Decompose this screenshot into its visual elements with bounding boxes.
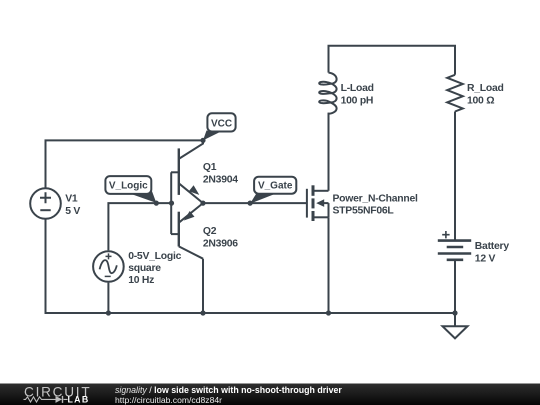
ground xyxy=(443,326,468,338)
svg-text:12 V: 12 V xyxy=(475,254,496,265)
svg-text:Battery: Battery xyxy=(475,241,510,252)
wire inductor top lead, top rail, R_Load top lead xyxy=(329,46,456,75)
svg-text:signality / low side switch wi: signality / low side switch with no-shoo… xyxy=(115,385,342,395)
label Q1 xyxy=(203,162,238,185)
wire ground stem xyxy=(454,313,456,326)
transistor Q1 2N3904 xyxy=(171,140,203,203)
svg-text:Q1: Q1 xyxy=(203,162,217,173)
svg-text:V_Gate: V_Gate xyxy=(258,181,293,192)
label V1 value xyxy=(65,193,80,217)
label Q2 xyxy=(203,226,238,249)
svg-text:R_Load: R_Load xyxy=(467,83,504,94)
junction dot VCC node xyxy=(200,138,205,143)
node flag V_Logic xyxy=(105,176,156,203)
MOSFET body arrowhead xyxy=(316,199,324,207)
svg-text:V_Logic: V_Logic xyxy=(109,181,148,192)
node flag V_Gate xyxy=(250,177,296,204)
footer logo CIRCUIT LAB xyxy=(24,384,92,404)
label R_Load value xyxy=(467,83,504,106)
MOSFET Power_N-Channel STP55NF06L xyxy=(307,185,329,221)
junction dot MOSFET source at rail xyxy=(326,310,331,315)
battery 12V xyxy=(438,231,471,260)
wire V_Logic horizontal and square source top lead xyxy=(108,203,171,250)
wire gate wire V_Gate xyxy=(203,202,307,204)
junction dot base node xyxy=(169,201,174,206)
wire V1 bottom lead and bottom ground rail xyxy=(46,220,456,314)
junction dot V_Logic node xyxy=(154,201,159,206)
transistor Q2 2N3906 xyxy=(171,203,203,259)
inductor L-Load xyxy=(319,73,336,114)
resistor R_Load xyxy=(447,75,463,112)
svg-text:Q2: Q2 xyxy=(203,226,217,237)
svg-text:5 V: 5 V xyxy=(65,206,80,217)
svg-text:LAB: LAB xyxy=(68,395,90,405)
svg-text:0-5V_Logic: 0-5V_Logic xyxy=(128,251,181,262)
svg-text:100 Ω: 100 Ω xyxy=(467,96,494,107)
wire Q2 collector down xyxy=(202,259,204,313)
svg-text:2N3904: 2N3904 xyxy=(203,175,238,186)
junction dot square source at rail xyxy=(106,310,111,315)
footer title text xyxy=(115,385,342,405)
label battery value xyxy=(475,241,510,265)
square wave source V2 xyxy=(93,251,124,282)
svg-text:http://circuitlab.com/cd8z84r: http://circuitlab.com/cd8z84r xyxy=(115,395,222,405)
wire base rail Q1-Q2 xyxy=(170,172,172,234)
svg-text:L-Load: L-Load xyxy=(341,83,374,94)
svg-text:Power_N-Channel: Power_N-Channel xyxy=(333,193,419,204)
svg-text:V1: V1 xyxy=(65,193,78,204)
svg-text:2N3906: 2N3906 xyxy=(203,238,238,249)
label L-Load value xyxy=(341,83,374,106)
label MOSFET xyxy=(333,193,419,216)
node flag VCC xyxy=(203,113,236,140)
svg-text:100 pH: 100 pH xyxy=(341,96,374,107)
wire square source bottom lead xyxy=(107,283,109,313)
wire inductor bottom to MOSFET drain xyxy=(328,113,330,191)
wire MOSFET source down xyxy=(328,217,330,313)
wire battery bottom lead xyxy=(454,260,456,313)
junction dot V_Gate node xyxy=(248,201,253,206)
wire V1 top lead and VCC rail top-left xyxy=(46,140,204,187)
label square source value xyxy=(128,251,181,286)
junction dot Q2 collector at rail xyxy=(200,310,205,315)
Q1 emitter arrowhead xyxy=(189,185,200,195)
svg-text:VCC: VCC xyxy=(211,118,232,129)
junction dot emitter output node xyxy=(200,201,205,206)
wire R_Load bottom to battery xyxy=(454,112,456,241)
voltage source V1 xyxy=(30,188,61,219)
Q2 emitter arrowhead xyxy=(184,211,195,221)
svg-text:square: square xyxy=(128,263,161,274)
footer bar xyxy=(0,384,540,405)
svg-text:10 Hz: 10 Hz xyxy=(128,275,154,286)
svg-text:STP55NF06L: STP55NF06L xyxy=(333,206,395,217)
junction dot ground at rail xyxy=(452,310,457,315)
